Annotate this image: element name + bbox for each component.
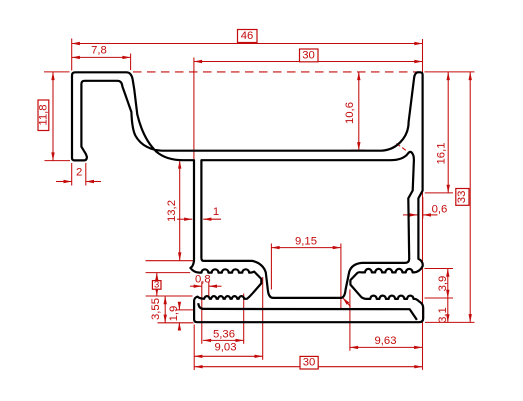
slot lower boundary: flange top and lip inner chamfer bbox=[198, 303, 417, 320]
svg-text:13,2: 13,2 bbox=[166, 200, 178, 222]
dimension 11,8 hook height, boxed label bbox=[37, 72, 70, 161]
dimension 3,55 flange left bbox=[150, 296, 194, 323]
dimension 9,15 channel opening bbox=[271, 236, 341, 309]
dimension 5,36 serrated length bbox=[203, 294, 244, 344]
svg-text:30: 30 bbox=[303, 357, 316, 369]
dimension 16,1 right wall bbox=[425, 72, 453, 193]
dimension 46 overall width, boxed label bbox=[72, 30, 423, 71]
dimension 0,6 wall step bbox=[403, 197, 447, 219]
leader arrow at channel floor corner bbox=[343, 298, 351, 307]
svg-text:9,03: 9,03 bbox=[215, 342, 237, 354]
shared extension line at right edge bbox=[422, 39, 424, 370]
dashed centerline at profile top bbox=[133, 71, 421, 73]
dimension 0,8 serration pitch bbox=[190, 274, 222, 344]
dimension 1 wall thickness bbox=[177, 206, 221, 221]
svg-text:5,36: 5,36 bbox=[213, 328, 235, 340]
dimension 3,9 upper serration offset bbox=[425, 269, 454, 299]
svg-text:30: 30 bbox=[302, 49, 315, 61]
dimension 1,9 flange thickness bbox=[168, 302, 193, 331]
svg-text:46: 46 bbox=[241, 30, 254, 42]
dimension 3 boxed label bbox=[146, 273, 193, 296]
svg-text:10,6: 10,6 bbox=[344, 102, 356, 124]
svg-text:1,9: 1,9 bbox=[168, 306, 180, 322]
dimension 30 top, boxed label bbox=[194, 49, 423, 171]
dimension 9,03 left bottom bbox=[194, 277, 263, 370]
dimension 10,6 web depth bbox=[344, 72, 365, 150]
svg-text:7,8: 7,8 bbox=[91, 45, 107, 57]
dimension 7,8 hook top width bbox=[72, 45, 131, 70]
dimension 30 bottom, boxed label bbox=[194, 356, 422, 369]
svg-text:33: 33 bbox=[456, 191, 468, 204]
box interior cavity with central channel bbox=[201, 152, 414, 298]
svg-text:1: 1 bbox=[213, 206, 219, 218]
dimension 3,1 lip height bbox=[437, 298, 450, 323]
svg-text:3,1: 3,1 bbox=[437, 307, 449, 323]
profile outer contour: hook, web, walls, serrated channels, flange, lip bbox=[72, 72, 423, 322]
svg-text:3: 3 bbox=[154, 280, 159, 291]
svg-text:2: 2 bbox=[76, 166, 82, 178]
dimension 33 overall height, boxed label bbox=[425, 72, 475, 323]
svg-text:0,8: 0,8 bbox=[195, 274, 211, 286]
dimension 13,2 left wall height bbox=[146, 160, 194, 260]
svg-text:9,15: 9,15 bbox=[295, 236, 317, 248]
dimension 9,63 right bottom bbox=[350, 290, 422, 351]
svg-text:3,55: 3,55 bbox=[150, 298, 162, 320]
svg-text:16,1: 16,1 bbox=[435, 143, 447, 165]
dimension 2 foot width bbox=[56, 163, 101, 186]
dashed leader mark at web fillet bbox=[397, 144, 408, 152]
svg-text:0,6: 0,6 bbox=[432, 203, 448, 215]
svg-text:9,63: 9,63 bbox=[375, 335, 397, 347]
svg-text:3,9: 3,9 bbox=[437, 276, 449, 292]
svg-text:11,8: 11,8 bbox=[37, 104, 49, 125]
